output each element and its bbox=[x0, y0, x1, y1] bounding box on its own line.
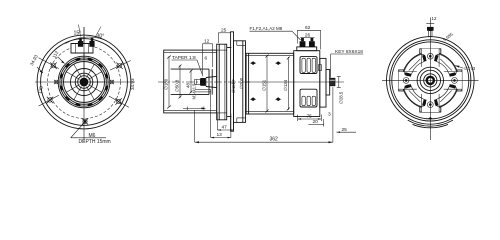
bearing boss circle bbox=[71, 69, 98, 96]
terminal bracket (top) bbox=[71, 44, 93, 54]
svg-text:48: 48 bbox=[186, 83, 191, 88]
boss face vertical 1 bbox=[208, 69, 210, 95]
TAPER underline bbox=[172, 59, 198, 61]
flange step top bbox=[237, 44, 246, 46]
body dia dim line 2 bbox=[287, 57, 290, 111]
bearing boss bbox=[326, 70, 330, 96]
brush holder mark 15deg bbox=[449, 86, 455, 88]
dim 25r line bbox=[337, 131, 357, 133]
corner mounting hole X upper-right bbox=[116, 63, 122, 69]
ring circle r22.4 bbox=[62, 60, 107, 105]
svg-text:62: 62 bbox=[305, 25, 311, 31]
hub dark ring bbox=[427, 77, 434, 84]
horizontal centerline bbox=[35, 81, 135, 83]
dim 362 line bbox=[195, 141, 333, 143]
body dia dim line 1 bbox=[266, 55, 269, 113]
mounting pad 1 bbox=[457, 70, 462, 91]
centerline through bracket bbox=[83, 27, 85, 60]
brush holder mark 165deg bbox=[405, 86, 411, 88]
axis hole 1 bbox=[452, 78, 458, 84]
svg-text:∅180: ∅180 bbox=[163, 78, 168, 90]
side view centerline bbox=[246, 81, 344, 83]
svg-text:3: 3 bbox=[328, 112, 331, 118]
hub ring bbox=[424, 74, 437, 87]
rear shaft dia dim line bbox=[337, 77, 341, 88]
brush holder mark 285deg bbox=[435, 55, 437, 61]
F1F2 leader bbox=[292, 31, 301, 40]
channel 1 bbox=[443, 72, 462, 90]
svg-text:∅134: ∅134 bbox=[283, 79, 288, 91]
axis hole 4 bbox=[427, 53, 433, 59]
M6 leader bbox=[71, 122, 85, 138]
F1F2 underline bbox=[250, 30, 293, 32]
spring chord 1 bbox=[440, 90, 452, 102]
flange step vertical bottom bbox=[236, 118, 238, 123]
channel 3 bbox=[399, 72, 418, 90]
shaft taper top line bbox=[206, 76, 217, 77]
bolt F2 (diamond) bbox=[275, 61, 281, 65]
outer circle 2 bbox=[390, 40, 471, 121]
housing circle bbox=[402, 52, 459, 109]
lower vent slots bbox=[302, 96, 316, 105]
body inner bottom line bbox=[246, 111, 294, 113]
dim 25 line bbox=[218, 33, 231, 43]
dim 362 arrows bbox=[195, 141, 199, 143]
terminal bracket on housing bbox=[297, 47, 317, 51]
angular dimension arc at top bbox=[66, 37, 108, 43]
vent slot 2 bbox=[404, 85, 425, 106]
flange ring plate bbox=[217, 44, 227, 120]
corner mounting hole X lower-left bbox=[47, 97, 53, 103]
dim 13 line bbox=[211, 137, 231, 139]
dim 26 bbox=[300, 37, 314, 39]
vent slot 3 bbox=[404, 54, 425, 75]
housing side tab bbox=[318, 65, 321, 71]
dim 75 line bbox=[298, 118, 322, 120]
shaft hub (dark) bbox=[80, 78, 89, 87]
centerline of shaft bbox=[158, 81, 250, 83]
vertical dim line D3 bbox=[190, 70, 193, 94]
bracket step lines bbox=[75, 44, 77, 54]
axis hole 2 bbox=[427, 102, 433, 108]
second outer circle bbox=[41, 39, 128, 126]
ext line 230.9 bbox=[230, 114, 232, 138]
svg-text:75: 75 bbox=[307, 114, 313, 120]
corner mounting hole X lower-right bbox=[115, 98, 121, 104]
svg-text:∅151: ∅151 bbox=[262, 79, 267, 91]
spokes (12 radial lines) bbox=[64, 62, 105, 103]
vertical dim line D1 bbox=[167, 56, 171, 109]
svg-text:6: 6 bbox=[205, 56, 208, 62]
svg-text:47: 47 bbox=[222, 125, 228, 131]
terminal stud T2 bbox=[309, 38, 315, 47]
svg-text:∅10h7: ∅10h7 bbox=[231, 79, 236, 93]
top stud bbox=[426, 24, 434, 37]
side hole right bbox=[110, 80, 114, 84]
svg-text:12: 12 bbox=[432, 16, 437, 21]
ext line 217.4 bbox=[216, 114, 218, 131]
leader arrow from 112 bbox=[58, 57, 65, 64]
svg-text:12: 12 bbox=[204, 39, 210, 45]
svg-text:∅200: ∅200 bbox=[239, 77, 244, 89]
svg-text:∅173: ∅173 bbox=[464, 66, 476, 71]
vent slot 1 bbox=[435, 85, 456, 106]
outer circle 3 bbox=[392, 42, 469, 119]
brush holder mark 105deg bbox=[424, 100, 426, 106]
inner circle r10.2 bbox=[420, 70, 440, 90]
svg-text:30°: 30° bbox=[97, 34, 105, 40]
svg-text:25: 25 bbox=[221, 27, 227, 33]
field frame body bbox=[246, 53, 294, 114]
terminal stud A (dark) bbox=[78, 38, 83, 47]
front ring vertical bbox=[248, 53, 250, 114]
hub ring bbox=[75, 73, 93, 91]
hub ring2 bbox=[78, 76, 91, 89]
dim 12 line bbox=[202, 44, 212, 74]
bolt F1 (diamond) bbox=[250, 61, 256, 65]
shaft nut (dark) bbox=[200, 78, 206, 86]
brush holder mark 75deg bbox=[435, 100, 437, 106]
bottom foot arc 1 bbox=[408, 120, 453, 126]
svg-text:26: 26 bbox=[305, 32, 311, 38]
radial tick 30deg bbox=[95, 27, 101, 38]
shaft taper bottom line bbox=[206, 87, 217, 88]
terminal stud T1 bbox=[300, 38, 306, 47]
brush holder mark 345deg bbox=[449, 74, 455, 76]
channel 2 bbox=[422, 93, 440, 112]
adapter inner top wall bbox=[164, 51, 217, 53]
vertical centerline bbox=[429, 18, 431, 141]
bottom M6 hole X bbox=[82, 119, 88, 125]
dim shaft stub line bbox=[183, 107, 206, 109]
flange step vertical top bbox=[236, 41, 238, 46]
ring plate inner vertical 2 bbox=[224, 44, 226, 120]
svg-text:34.93: 34.93 bbox=[130, 78, 135, 90]
ring plate top step bbox=[217, 49, 227, 51]
bottom small cross bbox=[428, 117, 432, 119]
svg-text:20: 20 bbox=[313, 119, 319, 125]
ext line below shaft 2 bbox=[195, 91, 211, 93]
ring circle r20.6 bbox=[64, 62, 105, 103]
horizontal centerline bbox=[382, 79, 479, 81]
end bell bbox=[320, 58, 326, 107]
svg-text:25: 25 bbox=[342, 127, 348, 133]
KEY underline bbox=[331, 53, 364, 55]
upper vent slots bbox=[302, 58, 316, 72]
key line on stub bbox=[330, 79, 335, 81]
spring chord 4 bbox=[440, 59, 452, 71]
vertical centerline bbox=[83, 27, 85, 141]
shaft washer bbox=[195, 80, 201, 85]
ring plate inner vertical bbox=[218, 44, 220, 120]
inner bore line bottom bbox=[171, 94, 209, 96]
svg-text:DEPTH 15mm: DEPTH 15mm bbox=[79, 139, 111, 145]
leader arrow from 34.93 bbox=[37, 67, 43, 73]
dim shaft ticks bbox=[186, 107, 188, 111]
ext line 210.7 bbox=[210, 90, 212, 138]
ring circle r24 bbox=[60, 58, 108, 106]
flange step bottom bbox=[237, 117, 246, 119]
bolt heads ring (dark marks) bbox=[61, 59, 107, 105]
mounting pad 3 bbox=[399, 70, 404, 91]
svg-text:∅50.8: ∅50.8 bbox=[174, 79, 179, 92]
rear shaft stub (dark with key) bbox=[330, 78, 335, 85]
dim 20 line bbox=[308, 124, 323, 126]
radial line through hole UL bbox=[39, 58, 59, 69]
vent slot 4 bbox=[435, 54, 456, 75]
axis hole 3 bbox=[403, 78, 409, 84]
radial line through hole UR bbox=[110, 61, 131, 71]
adapter body outline bbox=[164, 50, 217, 113]
terminal stud B (dark) bbox=[89, 38, 94, 47]
ring circle r26 bbox=[58, 56, 110, 108]
ext line below shaft 1 bbox=[195, 89, 211, 91]
KEY leader bbox=[330, 54, 332, 78]
taper end vertical bbox=[205, 78, 207, 87]
inner bore line top bbox=[171, 68, 209, 70]
svg-text:F1,F2,A1,A2 M8: F1,F2,A1,A2 M8 bbox=[250, 26, 283, 31]
body inner top line bbox=[246, 55, 294, 57]
svg-text:∅28.5: ∅28.5 bbox=[339, 91, 344, 104]
brush holder mark 255deg bbox=[424, 55, 426, 61]
ext line shaft nut down bbox=[194, 110, 196, 142]
big mounting flange plate bbox=[234, 41, 246, 123]
washer inner tick bbox=[196, 80, 198, 85]
commutator end housing bbox=[294, 51, 320, 117]
inner circle r13.2 bbox=[417, 67, 443, 93]
upper vent slot box bbox=[300, 57, 317, 74]
spacer top bbox=[227, 47, 232, 49]
svg-text:13: 13 bbox=[217, 132, 223, 138]
dim 47 line bbox=[217, 129, 233, 131]
brush holder mark 195deg bbox=[405, 74, 411, 76]
boss face vertical 2 bbox=[211, 69, 213, 95]
bottom foot arc 2 bbox=[413, 124, 448, 127]
corner mounting hole X upper-left bbox=[50, 63, 56, 69]
ring plate bottom step bbox=[217, 112, 227, 114]
channel 4 bbox=[422, 49, 440, 68]
radial line through hole LR bbox=[109, 96, 129, 107]
ext line 233.7 bbox=[233, 114, 235, 131]
spring chord 3 bbox=[409, 59, 421, 71]
adapter inner bottom wall bbox=[164, 110, 217, 112]
label right with leader bbox=[455, 66, 476, 72]
M6 underline bbox=[71, 137, 106, 139]
bolt F4 (diamond) bbox=[275, 97, 281, 101]
side hole left (on horiz centerline) bbox=[54, 80, 58, 84]
tall spacer ring bbox=[231, 32, 234, 131]
ext line rear shaft tip bbox=[332, 87, 334, 142]
radial tick 15deg bbox=[79, 25, 81, 37]
outer circle (motor flange OD) bbox=[37, 35, 131, 129]
lower vent slot box bbox=[300, 89, 317, 107]
mounting bolt circle (dashed) bbox=[48, 46, 121, 119]
dim 62 bbox=[297, 30, 320, 49]
mounting pad 4 bbox=[420, 49, 441, 54]
outer circle 1 bbox=[387, 37, 475, 125]
flange plate right double line bbox=[242, 41, 244, 123]
vertical dim line D2 bbox=[179, 65, 182, 99]
radial line through hole LL bbox=[39, 95, 59, 106]
spacer bottom bbox=[227, 116, 232, 118]
bolt F3 (diamond) bbox=[250, 97, 256, 101]
TAPER leader bbox=[197, 60, 203, 76]
mounting pad 2 bbox=[420, 107, 441, 112]
svg-text:362: 362 bbox=[270, 137, 279, 143]
spring chord 2 bbox=[409, 90, 421, 102]
